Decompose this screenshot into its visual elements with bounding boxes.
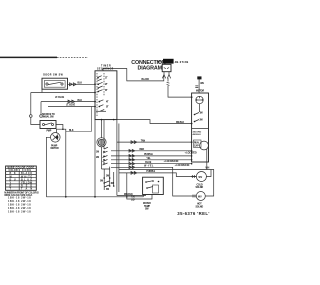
svg-text:2M: 2M <box>200 120 203 122</box>
motor box contacts <box>194 104 203 123</box>
svg-text:WH: WH <box>206 168 210 170</box>
svg-text:BLACK: BLACK <box>142 78 150 81</box>
svg-text:1M: 1M <box>96 152 99 154</box>
notes <box>4 191 39 213</box>
water pump motor B2 <box>47 131 61 151</box>
svg-text:4M: 4M <box>111 182 114 185</box>
svg-text:UNBAL SW: UNBAL SW <box>42 116 54 119</box>
bottom rail WH-BLK <box>46 194 145 198</box>
wire door switch to timer (BLK) <box>68 82 96 85</box>
node terminal left <box>30 93 33 118</box>
svg-text:35-6376 'REL': 35-6376 'REL' <box>177 211 209 216</box>
motor box divider <box>192 128 209 130</box>
svg-text:TIMER: TIMER <box>101 66 111 68</box>
water valve solenoid L1 <box>191 172 206 190</box>
top rule <box>0 56 88 58</box>
svg-text:COLD: COLD <box>197 184 204 186</box>
svg-text:SEQUENCE: SEQUENCE <box>97 69 114 71</box>
svg-text:MOTOR: MOTOR <box>196 90 204 92</box>
svg-text:PURPLE: PURPLE <box>144 154 153 156</box>
svg-text:SOLND: SOLND <box>196 187 204 189</box>
svg-text:DIAGRAM: DIAGRAM <box>138 65 163 71</box>
water temp switch S3 <box>143 177 164 210</box>
svg-text:3M: 3M <box>106 176 109 178</box>
wire BLUE <box>111 162 192 165</box>
wire unbal to timer (y=101.6) <box>41 100 95 103</box>
svg-text:+ LOCATED IN: + LOCATED IN <box>175 164 190 167</box>
svg-text:W-YEL: W-YEL <box>144 166 154 168</box>
motor box (motor + protector) <box>192 76 209 162</box>
svg-text:5M: 5M <box>100 181 103 183</box>
svg-text:BLK: BLK <box>69 130 74 132</box>
wire TAN <box>117 139 193 143</box>
door switch S1 <box>42 74 68 89</box>
svg-text:BLK: BLK <box>78 100 83 102</box>
wire PURPLE 2 <box>119 171 196 176</box>
svg-text:BLK: BLK <box>78 82 83 84</box>
wire WHITE-YELLOW <box>111 166 196 196</box>
timer contacts <box>94 76 109 112</box>
svg-text:+ LOCATED IN: + LOCATED IN <box>164 160 179 163</box>
svg-text:SOURCE TO: SOURCE TO <box>42 114 55 116</box>
wire RED <box>111 149 192 152</box>
svg-text:SOLND: SOLND <box>196 206 204 208</box>
timer TM <box>94 66 117 120</box>
svg-text:WH: WH <box>200 83 204 85</box>
title CONNECTION DIAGRAM <box>131 60 166 71</box>
wire lid switch drop <box>127 173 152 199</box>
unbalance switch S2 <box>40 114 56 129</box>
svg-text:WH-BLK: WH-BLK <box>124 194 133 196</box>
svg-text:LID: LID <box>131 200 135 202</box>
svg-text:LT. BLUE: LT. BLUE <box>66 105 76 107</box>
svg-text:LT. BLUE: LT. BLUE <box>55 97 65 99</box>
node terminal 2 <box>40 102 43 118</box>
wire unbal leads <box>31 117 63 129</box>
wire timer drops <box>95 120 119 197</box>
svg-text:2M: 2M <box>96 157 99 159</box>
wire bus left (y=92.5) <box>31 87 95 99</box>
labels left of temp switch <box>131 197 135 202</box>
motor box winding labels <box>193 131 202 136</box>
svg-text:1BK-18 2W-18: 1BK-18 2W-18 <box>8 210 31 213</box>
svg-text:TAN: TAN <box>141 139 146 142</box>
wire pump left lead to bottom rail <box>46 137 50 197</box>
wire YELLOW <box>111 158 192 161</box>
svg-text:WV: WV <box>199 177 203 179</box>
wire PURPLE <box>111 154 192 157</box>
wire pump top lead <box>57 128 74 196</box>
wire white (cord to motor box) <box>167 78 193 98</box>
svg-text:JB.07/2B: JB.07/2B <box>175 60 189 64</box>
svg-text:3M-BLK: 3M-BLK <box>176 122 185 124</box>
water valve solenoid L2 <box>193 192 205 209</box>
svg-text:1M: 1M <box>200 113 203 115</box>
svg-text:MOTOR: MOTOR <box>51 148 59 150</box>
terminal block TB1 (black box) <box>158 59 174 64</box>
motor contact cluster <box>96 147 110 169</box>
wire black (cord to timer) <box>103 68 164 81</box>
svg-text:WATER: WATER <box>143 202 151 205</box>
svg-text:HOT: HOT <box>197 204 202 206</box>
svg-text:4M-BLU: 4M-BLU <box>193 133 202 136</box>
svg-text:RED: RED <box>140 149 145 151</box>
svg-text:CAP: CAP <box>194 145 199 148</box>
svg-text:PURPLE: PURPLE <box>146 171 155 173</box>
drive motor M1 <box>97 138 106 147</box>
svg-text:WH: WH <box>158 62 162 64</box>
svg-text:BLUE: BLUE <box>145 162 151 164</box>
svg-text:WV: WV <box>198 196 202 198</box>
svg-text:RUN: RUN <box>194 143 199 145</box>
svg-text:PMP: PMP <box>47 131 52 133</box>
wire color code table <box>6 166 37 191</box>
svg-text:6M: 6M <box>106 189 109 191</box>
svg-text:PUMP: PUMP <box>51 146 58 148</box>
power cord plug P1 <box>162 64 171 78</box>
svg-text:YEL: YEL <box>146 158 151 160</box>
motor box lower internals <box>194 140 209 170</box>
wire lt blue (y=106.5) <box>48 105 95 132</box>
svg-text:+ LOCATED: + LOCATED <box>185 152 197 155</box>
motor lower contacts <box>100 167 114 191</box>
wire 3M-BLK (timer to motor box) <box>95 119 193 125</box>
wire WH to valves <box>119 168 214 196</box>
svg-text:DOOR SW SW: DOOR SW SW <box>43 74 63 76</box>
thermal protector <box>196 96 203 103</box>
